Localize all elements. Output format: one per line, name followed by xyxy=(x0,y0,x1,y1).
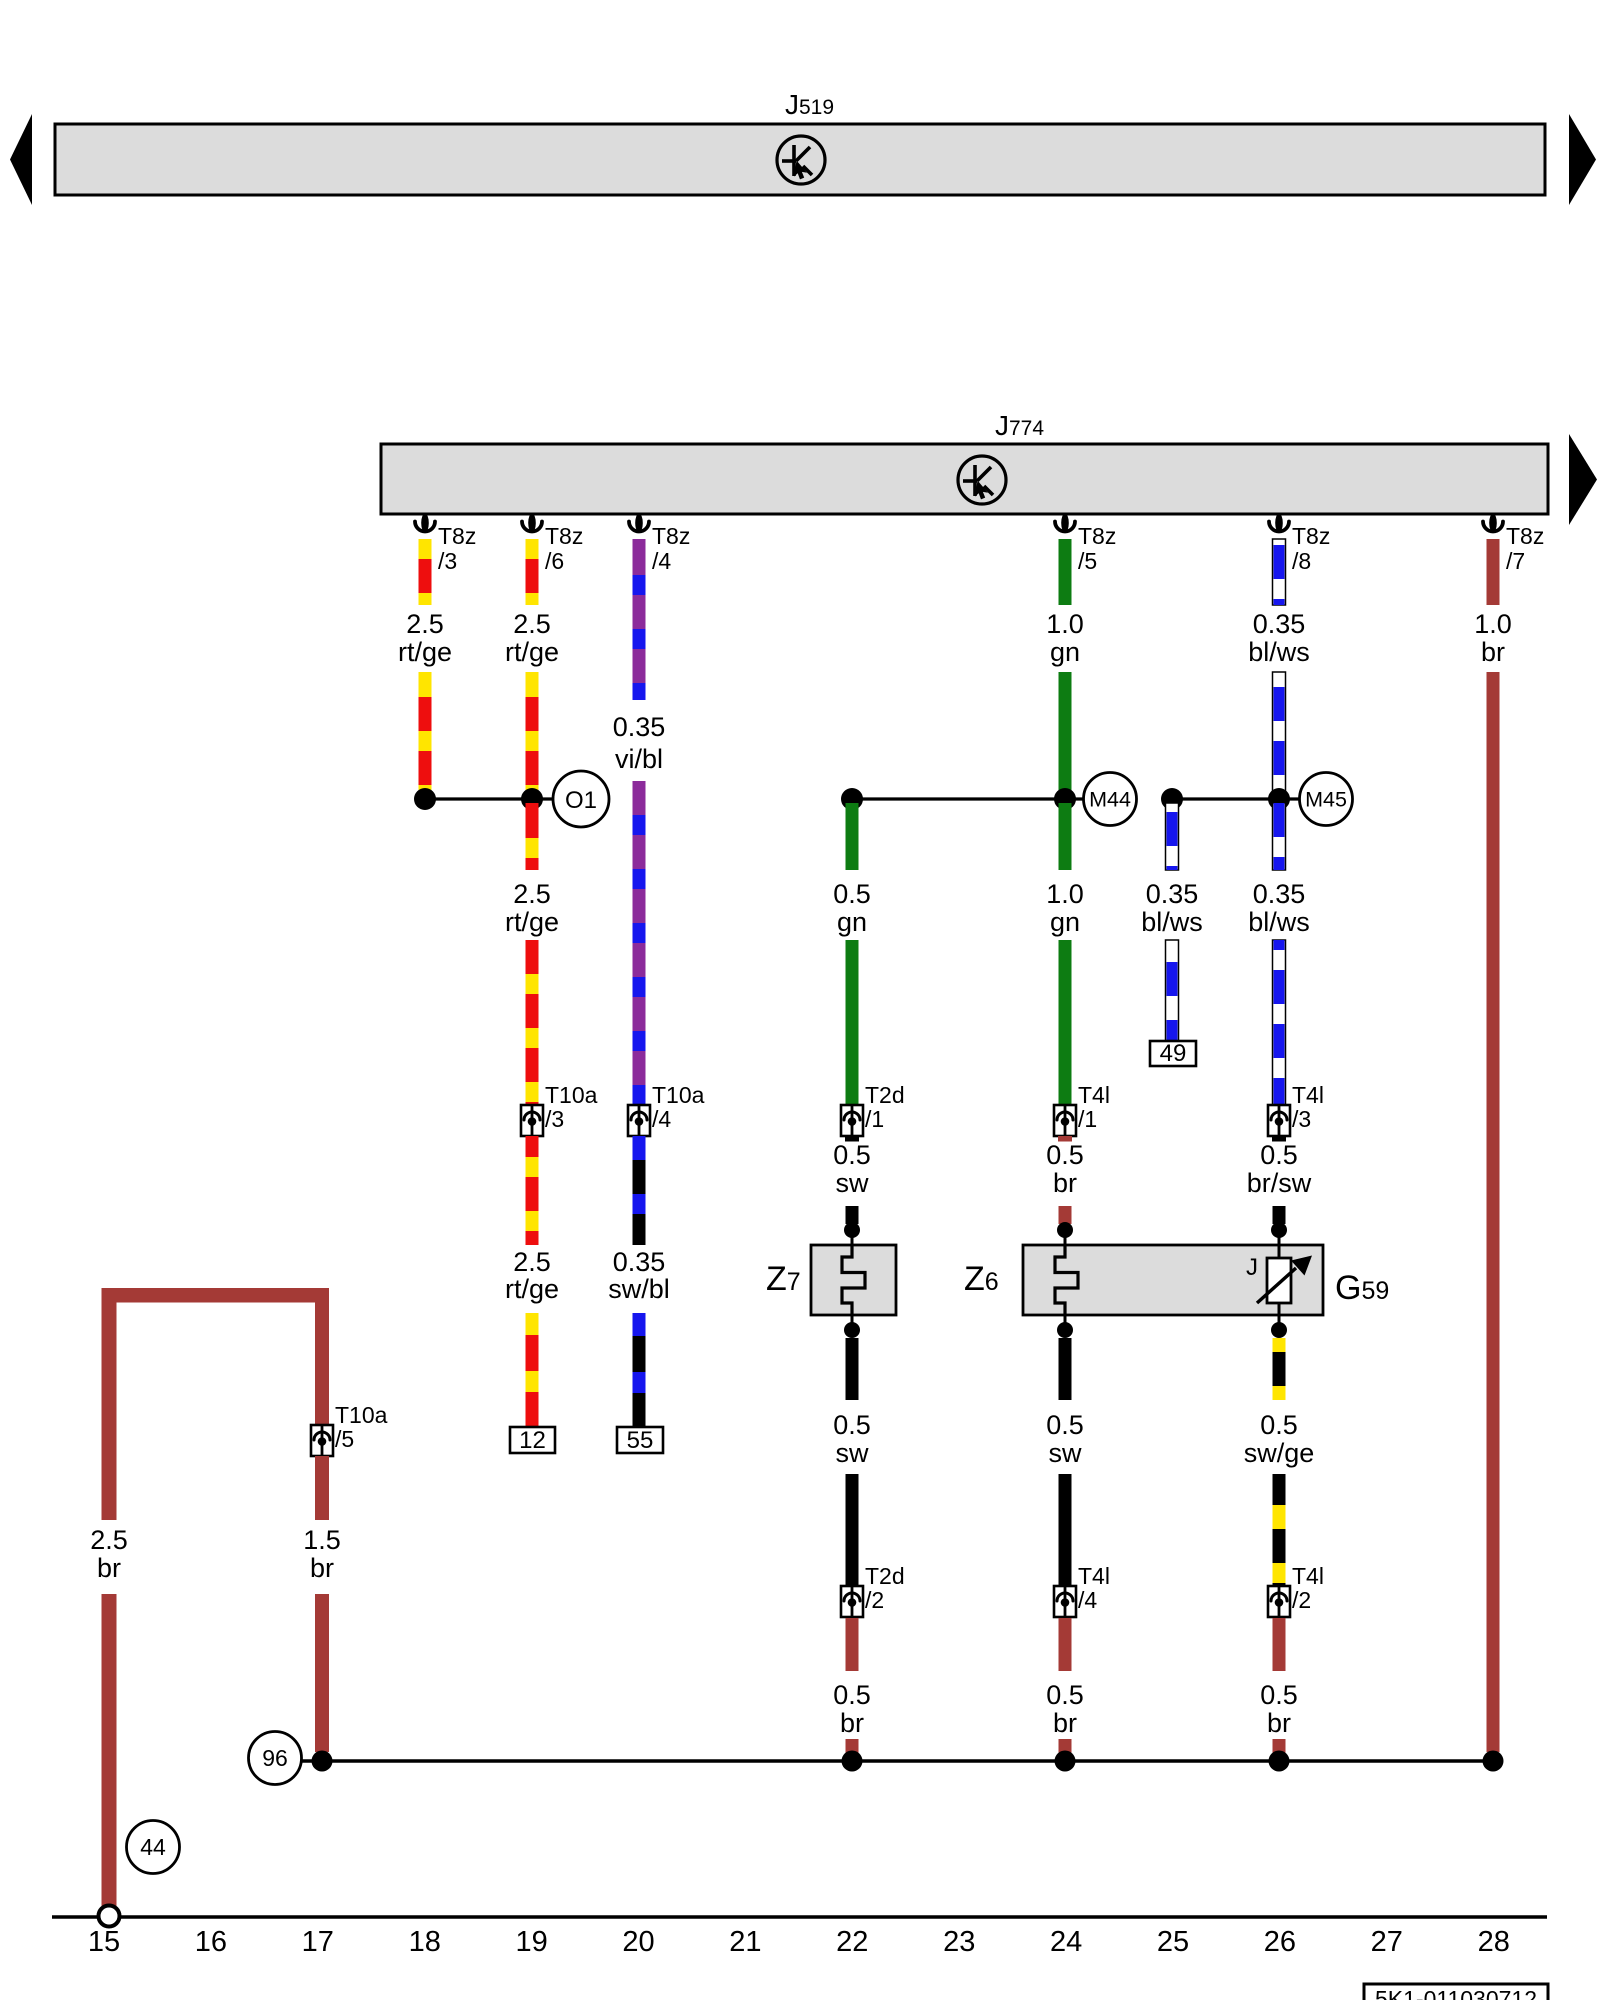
wire 1.0 br col28 long segment to ground bus xyxy=(1487,672,1500,1752)
wire 0.5 sw col22 into Z7 xyxy=(846,1206,859,1224)
svg-text:/5: /5 xyxy=(335,1426,354,1452)
label 0.5 br/sw col26 xyxy=(1247,1140,1312,1198)
wire 2.5 rt/ge col19 below node xyxy=(526,803,539,870)
svg-text:0.5: 0.5 xyxy=(1260,1680,1298,1710)
wire 0.5 br col24 into Z6 xyxy=(1059,1206,1072,1224)
terminal 55 box xyxy=(617,1427,663,1454)
label J519 xyxy=(785,89,834,120)
connector T8z pin /8 xyxy=(1269,514,1289,533)
svg-text:sw/bl: sw/bl xyxy=(608,1274,670,1304)
svg-text:T10a: T10a xyxy=(335,1402,388,1428)
label 2.5 rt/ge col19 upper xyxy=(505,609,559,667)
svg-text:rt/ge: rt/ge xyxy=(505,637,559,667)
wire 0.5 gn branch below node col22 xyxy=(846,803,859,870)
wire 0.5 sw col24 down to T4l/4 xyxy=(1059,1474,1072,1586)
ground connection symbol 44 xyxy=(127,1821,180,1874)
label 2.5 rt/ge col18 xyxy=(398,609,452,667)
svg-text:M45: M45 xyxy=(1305,788,1347,812)
wire 2.5 rt/ge from T8z/3 upper segment xyxy=(419,539,432,605)
junction dot above Z6 heater element xyxy=(1057,1222,1073,1245)
svg-text:1.0: 1.0 xyxy=(1046,609,1084,639)
continuation arrow right of J519 xyxy=(1569,114,1596,205)
svg-text:/3: /3 xyxy=(1292,1106,1311,1132)
svg-text:rt/ge: rt/ge xyxy=(505,1274,559,1304)
label 2.5 br xyxy=(90,1525,128,1583)
svg-text:br: br xyxy=(1053,1708,1077,1738)
label 0.35 vi/bl xyxy=(613,712,666,774)
svg-text:br: br xyxy=(1053,1168,1077,1198)
connector T4l/1 xyxy=(1054,1105,1076,1136)
svg-text:15: 15 xyxy=(88,1926,120,1958)
svg-text:0.35: 0.35 xyxy=(1253,609,1306,639)
wire from bl/ws branch node to M45 symbol xyxy=(1172,797,1299,800)
svg-text:O1: O1 xyxy=(565,787,597,814)
ground connection symbol 96 xyxy=(249,1732,302,1785)
svg-text:22: 22 xyxy=(836,1926,868,1958)
svg-text:M44: M44 xyxy=(1089,788,1131,812)
wire 1.0 gn col24 below node xyxy=(1059,803,1072,870)
wire 2.5 br / 1.5 br bridge horizontal segment xyxy=(102,1288,330,1303)
svg-text:/3: /3 xyxy=(438,548,457,574)
connector T2d/2 xyxy=(841,1586,863,1617)
wire 0.5 br/sw stub below T4l/3 xyxy=(1272,1136,1286,1142)
svg-text:18: 18 xyxy=(409,1926,441,1958)
svg-text:/5: /5 xyxy=(1078,548,1097,574)
wire 0.35 vi/bl from T8z/4 upper segment xyxy=(633,539,646,700)
ground point open circle on track 15 xyxy=(99,1906,120,1927)
wire 1.0 gn col24 down to T4l/1 xyxy=(1059,940,1072,1105)
wire 2.5 rt/ge col18 lower segment xyxy=(419,672,432,795)
bus system icon in J774 xyxy=(958,456,1006,504)
wire 2.5 rt/ge col19 down to T10a/3 xyxy=(526,940,539,1105)
wire 0.5 br col24 stub to ground bus xyxy=(1059,1739,1072,1755)
svg-text:0.5: 0.5 xyxy=(1260,1410,1298,1440)
wire 0.35 bl/ws branch below node col25 xyxy=(1166,803,1179,870)
wire 0.5 br/sw col26 into G59 xyxy=(1273,1206,1286,1224)
svg-text:T4l: T4l xyxy=(1292,1563,1324,1589)
connector T2d/1 xyxy=(841,1105,863,1136)
wire 0.35 bl/ws col26 second segment xyxy=(1273,672,1286,795)
svg-text:T2d: T2d xyxy=(865,1563,905,1589)
wire 1.5 br below T10a/5 xyxy=(315,1456,329,1520)
svg-text:T2d: T2d xyxy=(865,1082,905,1108)
wire 0.5 br col22 below T2d/2 xyxy=(846,1618,859,1671)
svg-text:J: J xyxy=(1246,1254,1258,1281)
svg-text:1.0: 1.0 xyxy=(1474,609,1512,639)
svg-text:/7: /7 xyxy=(1506,548,1525,574)
connector T10a/4 xyxy=(628,1105,650,1136)
svg-text:br: br xyxy=(310,1553,334,1583)
heated washer jet Z7 box xyxy=(811,1245,896,1315)
svg-text:0.5: 0.5 xyxy=(1046,1410,1084,1440)
wire 2.5 rt/ge below T10a/3 xyxy=(526,1136,539,1245)
svg-text:44: 44 xyxy=(140,1834,166,1860)
svg-text:1.5: 1.5 xyxy=(303,1525,341,1555)
label 1.0 gn col24 middle xyxy=(1046,879,1084,937)
connector T8z pin /7 xyxy=(1483,514,1503,533)
label 0.5 sw col24 lower xyxy=(1046,1410,1084,1468)
svg-text:br: br xyxy=(1481,637,1505,667)
svg-text:25: 25 xyxy=(1157,1926,1189,1958)
wire 0.35 sw/bl last segment xyxy=(633,1313,646,1427)
svg-text:12: 12 xyxy=(519,1427,546,1454)
svg-text:0.5: 0.5 xyxy=(833,879,871,909)
connector T4l/4 xyxy=(1054,1586,1076,1617)
wire 1.0 gn from T8z/5 upper segment xyxy=(1059,539,1072,605)
svg-text:T8z: T8z xyxy=(1506,523,1544,549)
wire 2.5 rt/ge col19 second segment xyxy=(526,672,539,795)
svg-text:55: 55 xyxy=(627,1427,654,1454)
svg-text:sw: sw xyxy=(1049,1438,1083,1468)
continuation arrow right of J774 xyxy=(1569,434,1597,525)
wire 1.5 br down to ground bus xyxy=(315,1594,329,1752)
svg-text:20: 20 xyxy=(622,1926,654,1958)
svg-text:vi/bl: vi/bl xyxy=(615,744,663,774)
wire 2.5 br left vertical lower to ground xyxy=(102,1594,117,1906)
terminal 49 box xyxy=(1150,1040,1196,1067)
svg-text:T10a: T10a xyxy=(545,1082,598,1108)
svg-text:/1: /1 xyxy=(1078,1106,1097,1132)
label 0.35 bl/ws col26 middle xyxy=(1248,879,1310,937)
svg-text:26: 26 xyxy=(1264,1926,1296,1958)
junction node col24 / M44 tap xyxy=(1054,788,1076,810)
wire 0.5 br stub below T4l/1 xyxy=(1058,1136,1072,1142)
svg-text:br: br xyxy=(97,1553,121,1583)
connector T10a/3 xyxy=(521,1105,543,1136)
diagram number box 5K1-011030712 xyxy=(1364,1984,1548,2000)
heater resistor symbol in Z7 xyxy=(842,1245,865,1315)
svg-text:24: 24 xyxy=(1050,1926,1082,1958)
label G59 xyxy=(1335,1269,1389,1307)
control unit J519 bus bar (onboard supply control unit) xyxy=(55,124,1545,195)
ground junction dot col24 xyxy=(1055,1751,1076,1772)
connection symbol O1 (plus connection 1) xyxy=(553,771,609,827)
label 0.35 bl/ws col25 xyxy=(1141,879,1203,937)
connector T8z pin /3 xyxy=(415,514,435,533)
wire 0.35 bl/ws col26 below node xyxy=(1273,803,1286,870)
wire 0.5 sw col22 below Z7 xyxy=(846,1338,859,1400)
svg-text:5K1-011030712: 5K1-011030712 xyxy=(1375,1986,1537,2000)
label 0.35 sw/bl xyxy=(608,1247,670,1304)
wire 0.35 bl/ws down to terminal 49 xyxy=(1166,940,1179,1041)
wire 0.35 vi/bl second segment xyxy=(633,781,646,1105)
junction dot below Z6 xyxy=(1057,1315,1073,1338)
svg-text:0.5: 0.5 xyxy=(833,1410,871,1440)
junction dot above G59 sensor xyxy=(1271,1222,1287,1245)
label 0.5 br col22 xyxy=(833,1680,871,1738)
wire 0.5 br col26 stub to ground bus xyxy=(1273,1739,1286,1755)
label 1.0 br col28 xyxy=(1474,609,1512,667)
junction dot below G59 xyxy=(1271,1315,1287,1338)
label J inside Z6 xyxy=(1246,1254,1258,1281)
svg-text:bl/ws: bl/ws xyxy=(1248,907,1310,937)
svg-text:23: 23 xyxy=(943,1926,975,1958)
connector T8z pin /5 xyxy=(1055,514,1075,533)
svg-text:/4: /4 xyxy=(1078,1587,1097,1613)
svg-text:0.35: 0.35 xyxy=(1253,879,1306,909)
wire 0.5 gn down to T2d/1 xyxy=(846,940,859,1105)
label 1.5 br xyxy=(303,1525,341,1583)
svg-text:2.5: 2.5 xyxy=(406,609,444,639)
svg-text:96: 96 xyxy=(262,1745,288,1771)
wire 0.5 br col22 stub to ground bus xyxy=(846,1739,859,1755)
wire 2.5 rt/ge from T8z/6 upper segment xyxy=(526,539,539,605)
connector T4l/2 xyxy=(1268,1586,1290,1617)
svg-text:T8z: T8z xyxy=(652,523,690,549)
wire joining node col18 to node col19 xyxy=(425,797,532,800)
svg-text:T8z: T8z xyxy=(545,523,583,549)
svg-text:sw: sw xyxy=(836,1438,870,1468)
svg-text:gn: gn xyxy=(1050,637,1080,667)
label 0.5 sw/ge col26 xyxy=(1244,1410,1315,1468)
label 1.0 gn col24 upper xyxy=(1046,609,1084,667)
svg-text:/6: /6 xyxy=(545,548,564,574)
connection symbol M45 xyxy=(1300,773,1353,826)
svg-text:19: 19 xyxy=(515,1926,547,1958)
ground connection wire 96 horizontal bus xyxy=(302,1759,1493,1763)
svg-text:2.5: 2.5 xyxy=(90,1525,128,1555)
svg-text:2.5: 2.5 xyxy=(513,609,551,639)
svg-text:0.35: 0.35 xyxy=(1146,879,1199,909)
lead to connection symbol O1 xyxy=(532,797,554,800)
label 0.5 br col26 lower xyxy=(1260,1680,1298,1738)
svg-text:bl/ws: bl/ws xyxy=(1141,907,1203,937)
branch node 0.35 bl/ws col25 xyxy=(1161,788,1183,810)
wire 0.35 bl/ws from T8z/8 upper segment xyxy=(1273,539,1286,605)
junction node col26 / M45 tap xyxy=(1268,788,1290,810)
svg-text:sw: sw xyxy=(836,1168,870,1198)
svg-text:17: 17 xyxy=(302,1926,334,1958)
svg-text:/4: /4 xyxy=(652,1106,671,1132)
svg-text:T4l: T4l xyxy=(1078,1082,1110,1108)
label 0.5 sw col22 lower xyxy=(833,1410,871,1468)
label 2.5 rt/ge col19 middle xyxy=(505,879,559,937)
svg-text:T10a: T10a xyxy=(652,1082,705,1108)
svg-text:br/sw: br/sw xyxy=(1247,1168,1312,1198)
label 0.5 gn col22 xyxy=(833,879,871,937)
svg-text:28: 28 xyxy=(1478,1926,1510,1958)
svg-text:/4: /4 xyxy=(652,548,671,574)
svg-text:/2: /2 xyxy=(1292,1587,1311,1613)
label 0.5 br col24 xyxy=(1046,1140,1084,1198)
label 0.5 br col24 lower xyxy=(1046,1680,1084,1738)
svg-text:T8z: T8z xyxy=(1292,523,1330,549)
label Z7 xyxy=(766,1260,801,1298)
ground junction dot col17 xyxy=(312,1751,333,1772)
svg-text:rt/ge: rt/ge xyxy=(505,907,559,937)
svg-text:2.5: 2.5 xyxy=(513,1247,551,1277)
connection symbol M44 xyxy=(1084,773,1137,826)
svg-text:1.0: 1.0 xyxy=(1046,879,1084,909)
label Z6 xyxy=(964,1260,999,1298)
svg-text:27: 27 xyxy=(1371,1926,1403,1958)
branch node 0.5 gn col22 xyxy=(841,788,863,810)
svg-text:16: 16 xyxy=(195,1926,227,1958)
continuation arrow left of J519 xyxy=(10,114,32,205)
wire 0.5 sw stub below T2d/1 xyxy=(845,1136,859,1142)
svg-text:0.5: 0.5 xyxy=(833,1680,871,1710)
svg-text:sw/ge: sw/ge xyxy=(1244,1438,1315,1468)
svg-text:bl/ws: bl/ws xyxy=(1248,637,1310,667)
wire 0.5 br col26 below T4l/2 xyxy=(1273,1618,1286,1671)
svg-text:0.5: 0.5 xyxy=(833,1140,871,1170)
svg-text:gn: gn xyxy=(1050,907,1080,937)
wire 1.0 gn col24 second segment xyxy=(1059,672,1072,795)
heater resistor symbol in Z6 xyxy=(1055,1245,1078,1315)
svg-text:21: 21 xyxy=(729,1926,761,1958)
svg-text:T8z: T8z xyxy=(1078,523,1116,549)
ground junction dot col26 xyxy=(1269,1751,1290,1772)
svg-text:br: br xyxy=(1267,1708,1291,1738)
wire from gn branch node to M44 symbol xyxy=(852,797,1083,800)
connector T8z pin /4 xyxy=(629,514,649,533)
svg-text:2.5: 2.5 xyxy=(513,879,551,909)
svg-text:T4l: T4l xyxy=(1292,1082,1324,1108)
wire 0.5 sw/ge col26 down to T4l/2 xyxy=(1273,1474,1286,1586)
wire 2.5 rt/ge col19 last segment xyxy=(526,1313,539,1427)
svg-text:0.5: 0.5 xyxy=(1046,1140,1084,1170)
svg-text:T8z: T8z xyxy=(438,523,476,549)
wire 0.5 sw col24 below Z6 xyxy=(1059,1338,1072,1400)
wire 0.5 sw/ge col26 below G59 xyxy=(1273,1338,1286,1400)
junction node col18 xyxy=(414,788,436,810)
svg-text:/3: /3 xyxy=(545,1106,564,1132)
connector T8z pin /6 xyxy=(522,514,542,533)
svg-text:/1: /1 xyxy=(865,1106,884,1132)
connector T4l/3 xyxy=(1268,1105,1290,1136)
junction node col19 / O1 tap xyxy=(521,788,543,810)
terminal 12 box xyxy=(510,1427,555,1454)
svg-text:0.35: 0.35 xyxy=(613,712,666,742)
svg-text:/2: /2 xyxy=(865,1587,884,1613)
current track numbers 15-28 xyxy=(88,1926,1510,1958)
svg-text:rt/ge: rt/ge xyxy=(398,637,452,667)
sensor G59 rheostat symbol xyxy=(1257,1245,1312,1315)
svg-text:0.35: 0.35 xyxy=(613,1247,666,1277)
label 2.5 rt/ge col19 lower xyxy=(505,1247,559,1304)
wire 0.35 sw/bl below T10a/4 xyxy=(633,1136,646,1245)
svg-text:0.5: 0.5 xyxy=(1260,1140,1298,1170)
heated washer jet Z6 / washer fluid temperature sender G59 box xyxy=(1023,1245,1323,1315)
wire 1.0 br from T8z/7 upper segment xyxy=(1487,539,1500,605)
control unit J774 bus bar xyxy=(381,444,1548,514)
connector T10a/5 xyxy=(311,1425,333,1456)
ground junction dot col28 xyxy=(1483,1751,1504,1772)
wire 0.5 sw col22 down to T2d/2 xyxy=(846,1474,859,1586)
wire 0.35 bl/ws col26 down to T4l/3 xyxy=(1273,940,1286,1105)
svg-text:T4l: T4l xyxy=(1078,1563,1110,1589)
junction dot below Z7 xyxy=(844,1315,860,1338)
svg-text:gn: gn xyxy=(837,907,867,937)
label 0.35 bl/ws col26 upper xyxy=(1248,609,1310,667)
label 0.5 sw col22 upper xyxy=(833,1140,871,1198)
wire 2.5 br left vertical upper xyxy=(102,1288,117,1520)
svg-text:49: 49 xyxy=(1160,1040,1187,1067)
wire 1.5 br right vertical to T10a/5 xyxy=(315,1288,329,1425)
svg-text:br: br xyxy=(840,1708,864,1738)
wire 0.5 br col24 below T4l/4 xyxy=(1059,1618,1072,1671)
svg-text:0.5: 0.5 xyxy=(1046,1680,1084,1710)
svg-text:/8: /8 xyxy=(1292,548,1311,574)
current track baseline xyxy=(52,1915,1547,1919)
label J774 xyxy=(995,410,1044,441)
junction dot above Z7 heater element xyxy=(844,1222,860,1245)
bus system icon in J519 xyxy=(777,136,825,184)
ground junction dot col22 xyxy=(842,1751,863,1772)
